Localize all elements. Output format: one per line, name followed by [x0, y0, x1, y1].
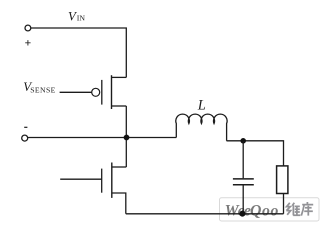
svg-text:o: o	[271, 203, 279, 220]
terminal minus	[22, 135, 28, 141]
watermark text weiku glyphs	[286, 202, 313, 216]
wire mid rail	[28, 137, 177, 139]
svg-text:IN: IN	[77, 14, 86, 23]
pmos source stub	[112, 105, 127, 107]
transistor Q2 NMOS	[101, 169, 103, 193]
svg-text:SENSE: SENSE	[30, 86, 56, 95]
wire inductor to output node	[227, 141, 284, 166]
pmos gate bubble	[92, 88, 100, 96]
capacitor C1 bottom lead	[242, 185, 244, 213]
svg-text:o: o	[262, 203, 270, 220]
svg-text:L: L	[197, 98, 206, 114]
inductor L1	[176, 114, 227, 141]
wire bottom rail	[126, 213, 284, 215]
node A junction dot	[124, 135, 130, 141]
wire Vsense to gate bubble	[60, 91, 92, 93]
resistor R1 body	[277, 166, 288, 194]
wire Vin top rail	[31, 28, 126, 77]
node B junction dot	[240, 138, 246, 144]
plus label	[25, 40, 30, 45]
nmos drain stub	[112, 166, 127, 168]
pmos drain stub	[112, 76, 127, 78]
resistor R1 bottom lead	[283, 194, 285, 214]
watermark box	[220, 198, 320, 221]
label Vin	[68, 10, 85, 24]
transistor Q1 PMOS	[101, 80, 103, 105]
label Vsense	[23, 80, 56, 95]
node C junction dot repaint	[240, 211, 246, 217]
capacitor C1 top lead	[242, 141, 244, 179]
svg-text:Q: Q	[250, 203, 261, 220]
terminal plus	[25, 25, 31, 31]
minus label	[24, 126, 27, 128]
wire pmos-nmos vertical	[125, 106, 127, 167]
watermark text WeeQoo	[225, 203, 279, 220]
capacitor C1 plates	[233, 179, 254, 185]
wire nmos gate	[60, 178, 101, 180]
node C junction dot	[240, 211, 246, 217]
nmos source stub	[112, 193, 126, 214]
